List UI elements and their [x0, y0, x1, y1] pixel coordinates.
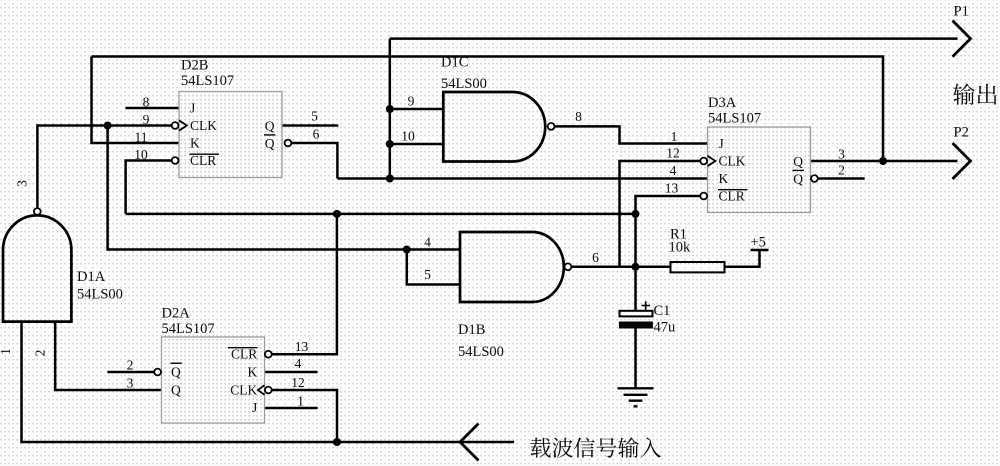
- wire D2B K pin 11 up to top: [92, 57, 180, 144]
- D3A CLK chevron: [708, 156, 716, 166]
- svg-text:13: 13: [665, 180, 679, 195]
- D2B CLK chevron: [179, 120, 187, 130]
- svg-text:D1C: D1C: [441, 55, 468, 71]
- power +5 bar: [751, 249, 769, 251]
- D2A CLK chevron: [258, 385, 265, 395]
- label carrier signal input chinese 载波信号输入: [530, 437, 661, 458]
- svg-text:54LS00: 54LS00: [77, 287, 123, 303]
- svg-text:54LS00: 54LS00: [441, 76, 487, 92]
- junction node D1C in10: [386, 140, 394, 148]
- svg-text:5: 5: [311, 109, 318, 124]
- svg-text:Q: Q: [171, 365, 181, 380]
- wire P1 net horizontal: [390, 37, 958, 40]
- svg-text:4: 4: [424, 235, 431, 250]
- D1B output bubble: [565, 263, 572, 270]
- svg-text:D2A: D2A: [162, 306, 191, 322]
- wire D2A CLR pin 13 vertical: [272, 214, 337, 354]
- wire top net to P2 junction: [92, 57, 884, 162]
- junction node D1C in9: [386, 105, 394, 113]
- port P2 arrow: [953, 143, 971, 179]
- svg-text:6: 6: [313, 127, 320, 142]
- svg-text:47u: 47u: [654, 320, 676, 336]
- NAND gate D1B body: [460, 232, 564, 302]
- svg-text:CLR: CLR: [719, 189, 745, 204]
- wire carrier input bottom net and D1A input 1: [22, 322, 515, 442]
- D3A CLR overline: [718, 189, 748, 191]
- svg-text:Q: Q: [793, 154, 803, 169]
- wire D2A Qbar pin 2 stub: [107, 371, 153, 374]
- D2A CLR overline: [228, 347, 257, 349]
- wire D3A Qbar pin 2 stub: [818, 177, 864, 180]
- D2B Qbar bubble: [285, 140, 292, 147]
- svg-text:4: 4: [295, 356, 302, 371]
- D2A CLK input bubble: [265, 387, 272, 394]
- wire pin6 to D3A CLK pin 12 vertical: [620, 161, 700, 267]
- ground symbol: [618, 388, 654, 406]
- svg-text:D1B: D1B: [458, 322, 485, 338]
- D3A CLK input bubble: [700, 158, 707, 165]
- svg-text:6: 6: [592, 250, 599, 265]
- svg-text:9: 9: [408, 94, 415, 109]
- wire branch node to D1B input 4: [108, 126, 460, 250]
- svg-text:D3A: D3A: [708, 95, 737, 111]
- svg-text:CLK: CLK: [230, 382, 257, 397]
- D3A CLR bubble: [700, 193, 707, 200]
- svg-text:9: 9: [143, 112, 150, 127]
- junction node D3A CLR tap: [632, 210, 640, 218]
- wire R1 C1 vertical net: [634, 214, 637, 311]
- D2B CLR overline: [190, 153, 220, 155]
- svg-text:D2B: D2B: [181, 58, 208, 74]
- svg-text:J: J: [719, 136, 724, 151]
- junction node P2 tap: [879, 157, 887, 165]
- wire D2A Q pin 3 to D1A input 2: [55, 322, 161, 390]
- svg-text:CLR: CLR: [190, 153, 216, 168]
- flip-flop U-D2B body fill: [179, 92, 282, 178]
- wire C1 to ground: [634, 328, 637, 388]
- wire D1B input 5 jog: [407, 250, 460, 285]
- D1C output bubble: [548, 123, 555, 130]
- svg-text:Q: Q: [265, 136, 275, 151]
- junction node K net / P1 vertical: [386, 175, 394, 183]
- svg-text:4: 4: [670, 163, 677, 178]
- D3A Qbar bubble: [811, 175, 818, 182]
- NAND gate D1A body (vertical): [3, 215, 71, 321]
- flip-flop U-D3A body fill: [708, 127, 811, 213]
- svg-text:D1A: D1A: [77, 269, 106, 285]
- D2A Qbar overline: [171, 362, 182, 364]
- svg-text:+5: +5: [751, 235, 766, 251]
- svg-text:CLK: CLK: [190, 118, 217, 133]
- svg-text:5: 5: [424, 267, 431, 282]
- wire K net y178.5 to D3A pin 4: [337, 177, 707, 180]
- svg-text:J: J: [252, 400, 257, 415]
- svg-text:10: 10: [134, 147, 148, 162]
- D2B Qbar overline: [264, 134, 276, 136]
- wire D2B CLR pin 10 down: [126, 161, 172, 214]
- wire D1C input pin 9: [390, 108, 444, 111]
- svg-text:1: 1: [297, 394, 304, 409]
- svg-text:J: J: [190, 101, 195, 116]
- flip-flop U-D2A body fill: [162, 337, 265, 423]
- resistor R1 body: [671, 262, 725, 272]
- wire D2B Q pin 5 stub: [282, 124, 338, 127]
- svg-text:1: 1: [0, 348, 13, 355]
- junction node D1B in5 tap: [403, 246, 411, 254]
- svg-text:12: 12: [666, 146, 680, 161]
- wire R1 left lead: [636, 266, 671, 269]
- svg-text:2: 2: [127, 358, 134, 373]
- svg-text:8: 8: [575, 109, 582, 124]
- wire long horizontal net y214: [126, 213, 636, 216]
- C1 plus sign: [642, 301, 651, 309]
- svg-text:54LS00: 54LS00: [458, 344, 504, 360]
- svg-text:P1: P1: [954, 4, 969, 20]
- wire R1 right lead to +5: [725, 250, 760, 267]
- svg-text:2: 2: [838, 162, 845, 177]
- D1A output bubble: [34, 208, 41, 215]
- svg-text:3: 3: [838, 147, 845, 162]
- capacitor C1 positive plate: [620, 311, 653, 317]
- svg-text:3: 3: [15, 180, 30, 187]
- svg-text:Q: Q: [171, 383, 181, 398]
- carrier input arrow: [460, 424, 479, 461]
- svg-text:54LS107: 54LS107: [162, 321, 215, 337]
- svg-text:CLR: CLR: [231, 347, 257, 362]
- port P1 arrow: [953, 21, 971, 57]
- flip-flop D2B box outline: [179, 92, 282, 178]
- svg-text:3: 3: [127, 376, 134, 391]
- flip-flop D3A box outline: [708, 127, 811, 213]
- svg-text:2: 2: [33, 350, 48, 357]
- wire D2B J pin 8 stub: [126, 107, 180, 110]
- wire P1 net vertical: [389, 39, 392, 179]
- svg-text:1: 1: [671, 129, 678, 144]
- flip-flop D2A box outline: [162, 337, 265, 423]
- D2B CLK input bubble: [172, 122, 179, 129]
- svg-text:C1: C1: [654, 303, 671, 319]
- D2B CLR bubble: [172, 157, 179, 164]
- svg-text:10k: 10k: [669, 240, 692, 256]
- svg-text:10: 10: [401, 129, 415, 144]
- junction node carrier input tap: [333, 438, 341, 446]
- wire D2B CLK pin 9 from D1A output: [37, 126, 171, 208]
- svg-text:Q: Q: [793, 172, 803, 187]
- wire D2B Qbar pin 6: [292, 143, 338, 179]
- wire D3A CLR pin 13: [636, 196, 700, 214]
- svg-text:8: 8: [143, 95, 150, 110]
- capacitor C1 negative plate: [619, 322, 653, 329]
- svg-text:54LS107: 54LS107: [181, 73, 234, 89]
- svg-text:13: 13: [295, 339, 309, 354]
- junction node D2A CLR tap: [333, 210, 341, 218]
- svg-text:54LS107: 54LS107: [708, 110, 761, 126]
- wire D2A CLK pin 12 to bottom net: [272, 390, 337, 442]
- wire D1B output pin 6: [572, 266, 636, 269]
- wire D2A K pin 4 stub: [265, 371, 318, 374]
- wire D1C output pin 8 to D3A J: [555, 126, 708, 143]
- wire D2A J pin 1 stub: [265, 407, 318, 410]
- wire D1C input pin 10: [390, 143, 444, 146]
- D3A Qbar overline: [793, 169, 805, 171]
- svg-text:K: K: [248, 364, 258, 379]
- junction node CLK9 branch: [104, 122, 112, 130]
- D2A CLR bubble: [265, 351, 272, 358]
- junction node R1 / D1B out: [632, 263, 640, 271]
- svg-text:K: K: [190, 136, 200, 151]
- wire D3A Q pin 3 to P2: [811, 160, 958, 163]
- svg-text:Q: Q: [265, 119, 275, 134]
- svg-text:12: 12: [291, 375, 305, 390]
- D2A Qbar bubble: [154, 369, 161, 376]
- svg-text:CLK: CLK: [719, 154, 746, 169]
- svg-text:K: K: [719, 171, 729, 186]
- svg-text:11: 11: [135, 130, 148, 145]
- label output chinese 输出: [953, 84, 997, 105]
- svg-text:P2: P2: [954, 125, 969, 141]
- NAND gate D1C body: [443, 92, 545, 162]
